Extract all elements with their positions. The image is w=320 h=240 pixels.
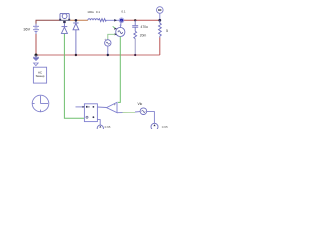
svg-text:Sweep: Sweep [36, 74, 45, 78]
VCCS sine glyph [118, 31, 123, 34]
svg-text:36V: 36V [23, 28, 30, 32]
VCCS control arrow 1 [115, 33, 117, 35]
bottom right source [151, 123, 158, 130]
VCCS load branch lead [119, 20, 122, 27]
AC sweep block [33, 67, 46, 83]
wire top rail left (battery to mosfet) [36, 20, 60, 25]
FF reset wire to clock source [97, 120, 100, 125]
svg-text:5: 5 [166, 29, 168, 33]
pin marks [86, 106, 88, 108]
mosfet gate pad [63, 21, 65, 23]
svg-text:ac: ac [158, 8, 162, 12]
svg-text:0.65: 0.65 [105, 125, 111, 129]
node dot right end [158, 19, 161, 22]
simulation clock [32, 95, 49, 112]
capacitor C1 470u [134, 19, 136, 21]
battery V1 [33, 24, 39, 34]
wire bottom rail [36, 54, 160, 56]
on-off gate element A [61, 23, 67, 33]
svg-text:0.1: 0.1 [96, 10, 101, 14]
inductor L1 100u [88, 19, 98, 20]
svg-text:20m: 20m [140, 33, 147, 37]
small up arrow on lead [120, 23, 122, 25]
junction dot cap/rail bottom [134, 54, 136, 56]
resistor ESR 20m [134, 31, 137, 38]
sine perturbation source [108, 34, 115, 39]
svg-text:Vlc: Vlc [138, 102, 143, 106]
resistor R1 0.1 [98, 19, 106, 22]
AC sweep arrow [34, 63, 39, 66]
svg-text:+: + [114, 103, 116, 107]
wire top rail mid (mosfet to inductor) [70, 19, 88, 21]
input arrow left [76, 106, 85, 108]
VCCS circle [116, 27, 125, 36]
resistor Rload 5 [159, 20, 162, 37]
green gate wire [64, 34, 84, 118]
wire with current arrow [106, 19, 120, 21]
wire top rail right (node to right branch) [123, 19, 160, 21]
wire battery bottom lead [35, 34, 37, 56]
mosfet Q1 [60, 14, 70, 21]
diode D1 [73, 20, 79, 55]
svg-text:0.65: 0.65 [162, 125, 168, 129]
ac sweep probe [157, 7, 164, 14]
bottom mid clock source [97, 125, 103, 131]
junction dot sine/rail [107, 54, 109, 56]
comparator minus input wire [117, 112, 123, 114]
node dot (sense point) [119, 18, 124, 23]
FF output wire [97, 106, 106, 109]
comparator triangle [107, 102, 118, 112]
junction dot diode bottom [75, 54, 77, 56]
wire right branch vertical [159, 38, 161, 56]
ground [35, 54, 38, 57]
svg-text:470u: 470u [141, 25, 149, 29]
node dot at diode top [75, 19, 78, 22]
green sense wire down [118, 37, 120, 103]
VCCS control arrow 2 [114, 27, 117, 30]
svg-text:100u: 100u [87, 10, 94, 14]
green control stub [113, 26, 115, 28]
flip-flop block [84, 104, 97, 122]
svg-text:0.1: 0.1 [121, 10, 126, 14]
